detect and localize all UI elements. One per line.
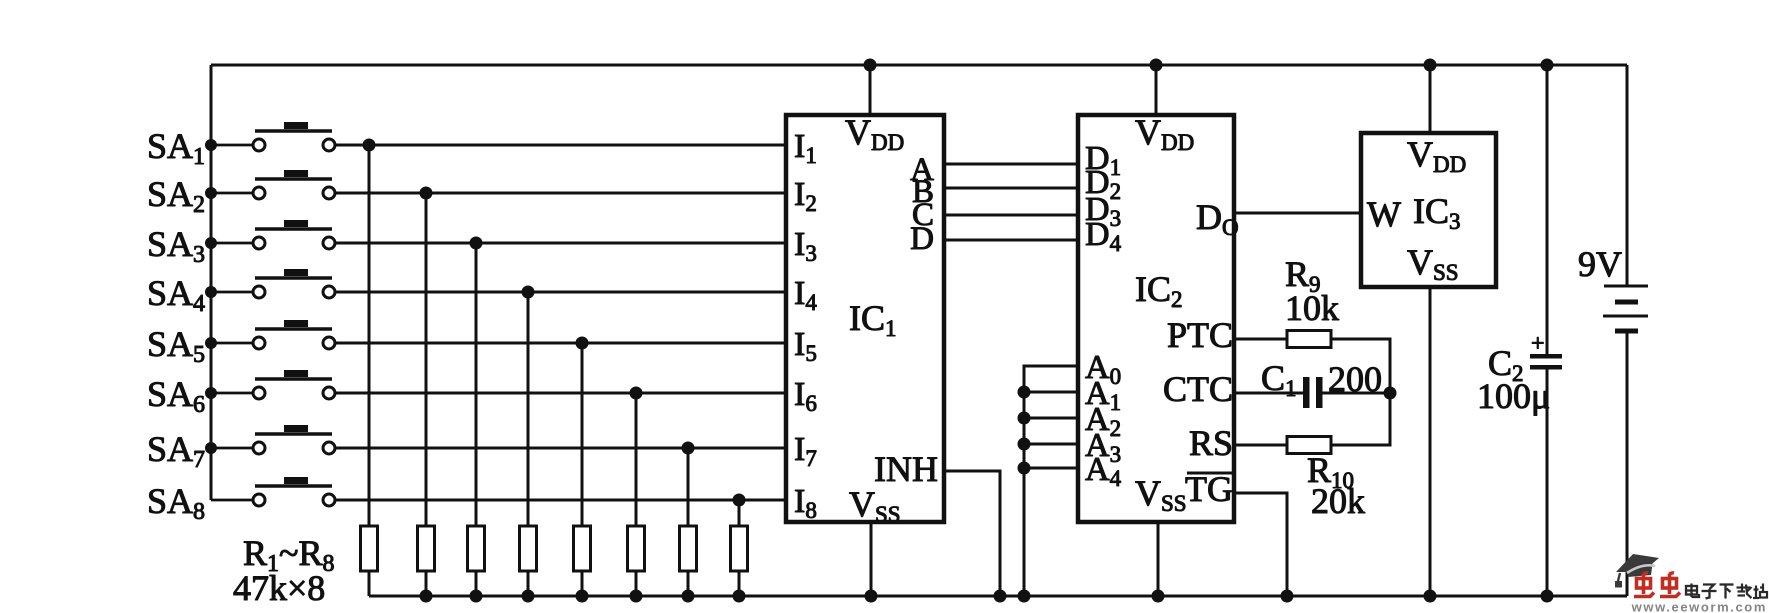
node junction SA7/R7 [682,442,695,455]
svg-text:D: D [910,221,934,257]
wire SA7 to IC1 pin I7 [335,447,786,450]
node R5 ground junction [576,590,589,603]
wire PTC to R9 [1234,338,1287,341]
wire R3 column [475,243,478,526]
wire C2 top [1546,65,1549,354]
wire SA8 to IC1 pin I8 [335,499,786,502]
IC IC3 [1361,133,1496,287]
wire C2 bottom [1546,369,1549,596]
node IC3 VSS on ground [1424,590,1437,603]
wire A0-A4 common to ground [1024,366,1078,596]
svg-text:www.eeworm.com: www.eeworm.com [1631,600,1767,613]
wire R1 to ground bus [368,571,371,596]
node A1 junction [1018,386,1031,399]
svg-text:CTC: CTC [1163,369,1233,409]
node INH ground junction [994,590,1007,603]
resistor R8 [731,526,748,571]
wire IC2 VDD to power bus [1155,65,1158,115]
watermark chongchong red characters [1634,573,1654,597]
resistor R9 [1287,331,1331,348]
switch SA8 [211,477,335,506]
wire D to D4 [944,239,1078,242]
switch SA1 [205,122,335,151]
wire R10 to node [1331,393,1390,445]
wire DO to W [1234,212,1361,215]
node junction SA3/R3 [470,237,483,250]
wire R7 to ground bus [687,571,690,596]
wire A1 stub [1024,391,1078,394]
node A3 junction [1018,438,1031,451]
wire SA1 to IC1 pin I1 [335,144,786,147]
svg-text:10k: 10k [1285,288,1339,328]
node IC1 VSS on ground [865,590,878,603]
IC IC2 [1078,115,1234,522]
node C2 on power bus [1541,59,1554,72]
svg-text:+: + [1531,331,1545,357]
node IC1 VDD on bus [864,59,877,72]
battery 9V [1603,286,1648,334]
resistor R7 [680,526,697,571]
wire top power bus [211,64,1627,67]
svg-text:PTC: PTC [1167,315,1233,355]
wire R6 column [635,393,638,526]
wire R8 to ground bus [738,571,741,596]
svg-text:47k×8: 47k×8 [233,568,325,608]
resistor R4 [520,526,537,571]
wire IC1 VSS to ground bus [870,522,873,596]
switch SA6 [205,370,335,399]
node junction SA6/R6 [630,387,643,400]
node IC3 VDD on bus [1424,59,1437,72]
wire SA6 to IC1 pin I6 [335,392,786,395]
wire CTC to C1 [1234,392,1304,395]
wire SA2 to IC1 pin I2 [335,192,786,195]
node TG ground junction [1281,590,1294,603]
resistor R6 [628,526,645,571]
resistor R3 [468,526,485,571]
node R3 ground junction [470,590,483,603]
svg-text:RS: RS [1189,423,1233,463]
wire left bus [210,65,213,500]
node R9/C1/R10 junction [1384,387,1397,400]
svg-text:W: W [1367,194,1401,234]
svg-text:INH: INH [874,449,938,489]
node R4 ground junction [522,590,535,603]
node R8 ground junction [733,590,746,603]
wire IC3 VSS to ground bus [1429,287,1432,596]
switch SA7 [205,425,335,454]
wire C1 to node [1322,392,1390,395]
svg-text:20k: 20k [1311,481,1365,521]
resistor R2 [418,526,435,571]
wire R3 to ground bus [475,571,478,596]
switch SA2 [205,170,335,199]
wire A4 stub [1024,467,1078,470]
wire R4 to ground bus [527,571,530,596]
wire TG to ground [1234,493,1287,596]
wire B to D2 [944,187,1078,190]
capacitor C1 [1303,377,1323,408]
switch SA4 [205,269,335,298]
resistor R1 [361,526,378,571]
wire R2 to ground bus [425,571,428,596]
node junction SA4/R4 [522,286,535,299]
node junction SA5/R5 [576,337,589,350]
wire RS to R10 [1234,444,1287,447]
wire SA5 to IC1 pin I5 [335,342,786,345]
watermark graduation cap logo [1615,554,1659,588]
node junction SA1/R1 [363,139,376,152]
IC IC1 (8-input encoder) [786,115,944,522]
overline for TG [1187,472,1233,475]
wire bottom ground bus [369,595,1627,598]
wire IC1 VDD to power bus [869,65,872,115]
wire R9 to node [1331,339,1390,393]
node C2 on ground bus [1541,590,1554,603]
resistor R5 [574,526,591,571]
svg-text:9V: 9V [1578,244,1622,284]
wire R5 to ground bus [581,571,584,596]
wire R5 column [581,343,584,526]
switch SA3 [205,220,335,249]
watermark chinese site name dianzi xiazaizhan [1686,584,1699,598]
node IC2 VDD on bus [1150,59,1163,72]
node A4 junction [1018,462,1031,475]
wire A2 stub [1024,417,1078,420]
wire SA3 to IC1 pin I3 [335,242,786,245]
node junction SA8/R8 [733,494,746,507]
node junction SA2/R2 [420,187,433,200]
wire R7 column [687,448,690,526]
capacitor C2 (electrolytic) [1530,354,1562,370]
switch SA5 [205,320,335,349]
wire IC2 VSS to ground bus [1157,522,1160,596]
node A2 junction [1018,412,1031,425]
wire R1 column [368,145,371,526]
resistor R10 [1287,437,1331,454]
node R2 ground junction [420,590,433,603]
svg-text:TG: TG [1185,469,1233,509]
node R7 ground junction [682,590,695,603]
wire battery top [1626,65,1629,286]
wire A3 stub [1024,443,1078,446]
wire battery bottom [1626,331,1629,596]
wire R8 column [738,500,741,526]
wire R4 column [527,292,530,526]
node IC2 VSS on ground [1152,590,1165,603]
node A-line ground junction [1018,590,1031,603]
wire R6 to ground bus [635,571,638,596]
wire SA4 to IC1 pin I4 [335,291,786,294]
svg-text:100μ: 100μ [1477,376,1550,416]
wire A to D1 [944,163,1078,166]
wire IC3 VDD to power bus [1429,65,1432,133]
node R6 ground junction [630,590,643,603]
wire C to D3 [944,214,1078,217]
wire R2 column [425,193,428,526]
wire INH to ground [944,471,1000,596]
